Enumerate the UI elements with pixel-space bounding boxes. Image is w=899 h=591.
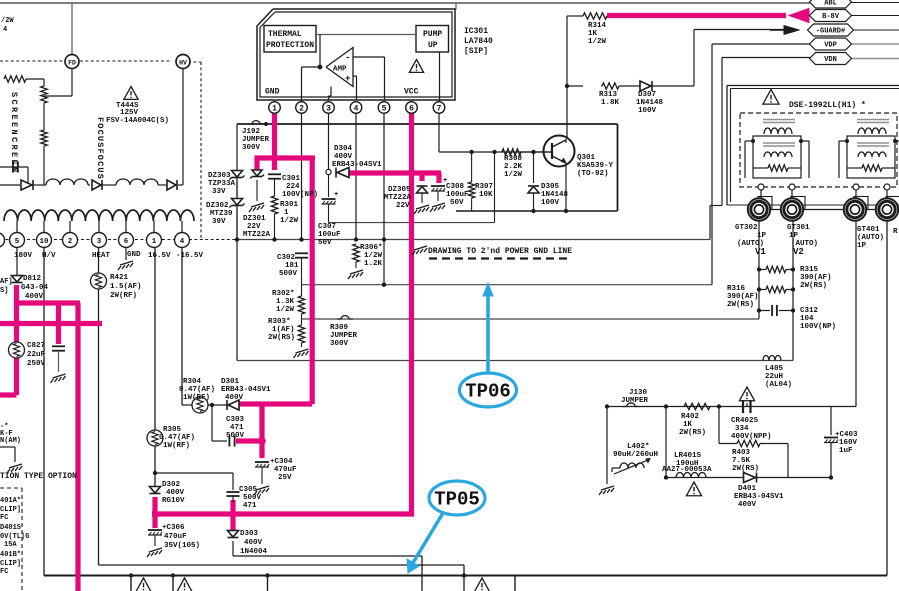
svg-text:+C306: +C306 [162, 524, 185, 532]
svg-text:15A: 15A [4, 541, 17, 549]
svg-text:C305: C305 [239, 486, 258, 494]
svg-text:0.47(AF): 0.47(AF) [159, 434, 195, 442]
svg-text:2W(RF): 2W(RF) [110, 292, 137, 300]
svg-text:1N4148: 1N4148 [636, 99, 664, 107]
svg-text:R: R [893, 228, 898, 236]
svg-text:V2: V2 [793, 247, 804, 257]
svg-text:V1: V1 [755, 247, 766, 257]
svg-text:4: 4 [3, 26, 7, 34]
svg-text:+C304: +C304 [270, 458, 293, 466]
svg-text:GND: GND [265, 88, 280, 97]
svg-text:470uF: 470uF [274, 466, 297, 474]
svg-text:D812: D812 [23, 275, 42, 283]
svg-text:IC301: IC301 [464, 27, 488, 36]
svg-text:1N4148: 1N4148 [541, 191, 569, 199]
svg-text:401A*: 401A* [0, 497, 21, 505]
svg-text:1P: 1P [789, 232, 799, 240]
svg-text:390(AF): 390(AF) [727, 293, 759, 301]
svg-text:CLIP]: CLIP] [0, 506, 21, 514]
svg-text:PROTECTION: PROTECTION [266, 41, 314, 50]
svg-text:5: 5 [382, 105, 387, 114]
svg-text:0V(TL|G: 0V(TL|G [0, 533, 29, 541]
svg-text:MTZ22A: MTZ22A [243, 231, 271, 239]
svg-text:2W(RS): 2W(RS) [732, 465, 759, 473]
svg-text:JUMPER: JUMPER [621, 397, 649, 405]
svg-text:R308: R308 [504, 155, 523, 163]
svg-text:-GUARD#: -GUARD# [816, 28, 845, 36]
svg-text:22V: 22V [247, 223, 261, 231]
svg-text:1/2W: 1/2W [276, 306, 295, 314]
svg-text:90uH/260uH: 90uH/260uH [613, 451, 658, 459]
svg-text:1(AF): 1(AF) [272, 326, 295, 334]
svg-text:2W(RS): 2W(RS) [268, 334, 295, 342]
svg-text:10: 10 [39, 238, 49, 246]
svg-text:100uF: 100uF [446, 191, 469, 199]
svg-text:1P: 1P [857, 242, 867, 250]
svg-text:1.8K: 1.8K [601, 99, 620, 107]
svg-text:1K: 1K [588, 30, 598, 38]
svg-text:R304: R304 [183, 378, 202, 386]
svg-text:1W(RF): 1W(RF) [163, 442, 190, 450]
svg-text:50V: 50V [450, 199, 464, 207]
svg-text:MTZ22A: MTZ22A [384, 194, 412, 202]
svg-text:R314: R314 [588, 22, 607, 30]
svg-text:22V: 22V [396, 202, 410, 210]
svg-text:J192: J192 [242, 128, 261, 136]
svg-text:22uF: 22uF [27, 351, 46, 359]
svg-text:TP05: TP05 [434, 489, 480, 511]
svg-text:4: 4 [180, 238, 185, 246]
svg-text:1/2W: 1/2W [588, 38, 607, 46]
svg-text:FD: FD [68, 60, 76, 67]
svg-text:GT302: GT302 [735, 224, 758, 232]
svg-text:G43-04: G43-04 [21, 284, 49, 292]
svg-text:L402*: L402* [627, 443, 650, 451]
svg-text:400V: 400V [166, 489, 185, 497]
svg-text:2W(RS): 2W(RS) [727, 301, 754, 309]
svg-text:R307: R307 [475, 183, 493, 191]
svg-text:471: 471 [243, 502, 257, 510]
svg-text:CR402S: CR402S [731, 417, 759, 425]
svg-text:R316: R316 [727, 285, 746, 293]
svg-text:GND: GND [127, 251, 141, 259]
svg-text:FC: FC [0, 568, 8, 576]
svg-text:R302*: R302* [272, 290, 295, 298]
svg-text:3: 3 [97, 238, 102, 246]
svg-text:1W(RF): 1W(RF) [183, 394, 210, 402]
svg-text:4: 4 [354, 105, 359, 114]
svg-text:R301: R301 [280, 201, 299, 209]
svg-text:CLIP]: CLIP] [0, 560, 21, 568]
svg-text:+: + [334, 191, 338, 199]
svg-text:[SIP]: [SIP] [464, 47, 488, 56]
svg-text:KSA539-Y: KSA539-Y [577, 162, 614, 170]
svg-text:D303: D303 [240, 530, 259, 538]
svg-text:TION TYPE OPTION: TION TYPE OPTION [0, 472, 77, 481]
svg-text:300V: 300V [330, 340, 349, 348]
svg-text:DZ303: DZ303 [208, 172, 231, 180]
svg-text:2.2K: 2.2K [504, 163, 523, 171]
svg-text:1.2K: 1.2K [364, 260, 383, 268]
svg-text:C301: C301 [282, 175, 301, 183]
svg-text:1K: 1K [683, 421, 693, 429]
svg-text:400V: 400V [244, 539, 263, 547]
svg-text:VDP: VDP [824, 42, 837, 50]
svg-text:VDN: VDN [824, 56, 837, 64]
svg-text:DZ302: DZ302 [206, 202, 229, 210]
svg-text:LR401S: LR401S [674, 452, 702, 460]
svg-text:R303*: R303* [268, 318, 291, 326]
svg-text:DZ305: DZ305 [388, 186, 411, 194]
svg-text:2W(RS): 2W(RS) [679, 429, 706, 437]
svg-text:D302: D302 [162, 481, 181, 489]
svg-text:160V: 160V [839, 439, 858, 447]
svg-text:401B*: 401B* [0, 551, 21, 559]
svg-text:D301: D301 [221, 378, 240, 386]
svg-text:R402: R402 [681, 413, 700, 421]
svg-text:471: 471 [230, 424, 244, 432]
svg-text:22uH: 22uH [765, 373, 783, 381]
svg-text:D401S: D401S [0, 524, 21, 532]
svg-text:2W(RS): 2W(RS) [800, 282, 827, 290]
svg-text:500V: 500V [226, 432, 245, 440]
svg-text:UP: UP [428, 41, 438, 50]
svg-text:/2W: /2W [1, 17, 14, 25]
svg-text:-16.5V: -16.5V [176, 252, 204, 260]
svg-text:2: 2 [68, 238, 73, 246]
svg-text:400V(NPP): 400V(NPP) [731, 433, 772, 441]
svg-text:1: 1 [272, 105, 277, 114]
svg-text:1: 1 [284, 209, 289, 217]
svg-text:400V: 400V [25, 293, 44, 301]
svg-text:L405: L405 [765, 365, 784, 373]
svg-text:AA27-00053A: AA27-00053A [662, 466, 712, 474]
svg-text:1/2W: 1/2W [364, 252, 383, 260]
svg-text:FSV-14A004C(S): FSV-14A004C(S) [106, 117, 169, 125]
svg-text:THERMAL: THERMAL [268, 30, 302, 39]
svg-text:6: 6 [409, 105, 414, 114]
svg-text:16.5V: 16.5V [148, 252, 171, 260]
svg-text:R305: R305 [163, 426, 182, 434]
svg-text:TP06: TP06 [465, 381, 511, 403]
svg-text:500V: 500V [243, 494, 262, 502]
svg-text:7.5K: 7.5K [732, 457, 751, 465]
svg-text:100V: 100V [541, 199, 560, 207]
svg-text:JUMPER: JUMPER [330, 332, 358, 340]
svg-text:ERB43-04SV1: ERB43-04SV1 [734, 493, 784, 501]
svg-text:7: 7 [437, 105, 442, 114]
svg-text:-: - [345, 53, 350, 63]
svg-text:SCREENCREEN: SCREENCREEN [9, 92, 19, 175]
svg-text:3: 3 [326, 105, 331, 114]
svg-text:35V(105): 35V(105) [164, 542, 200, 550]
svg-text:100V: 100V [638, 107, 657, 115]
svg-text:5: 5 [15, 238, 20, 246]
svg-text:C308: C308 [446, 183, 465, 191]
svg-text:181: 181 [285, 262, 299, 270]
svg-text:100V(NP): 100V(NP) [800, 323, 836, 331]
svg-text:J130: J130 [629, 389, 648, 397]
svg-text:PUMP: PUMP [423, 30, 442, 39]
svg-text:+: + [345, 74, 350, 84]
svg-text:25V: 25V [278, 474, 292, 482]
svg-text:ERB43-04SV1: ERB43-04SV1 [221, 386, 271, 394]
svg-text:100V(NP): 100V(NP) [282, 191, 318, 199]
svg-text:33V: 33V [212, 188, 226, 196]
svg-text:224: 224 [286, 183, 300, 191]
svg-text:R421: R421 [110, 274, 129, 282]
svg-text:104: 104 [800, 315, 814, 323]
svg-text:125V: 125V [120, 109, 139, 117]
svg-text:50V: 50V [318, 239, 332, 247]
svg-text:0.47(AF): 0.47(AF) [179, 386, 215, 394]
svg-text:R315: R315 [800, 266, 819, 274]
svg-text:S]: S] [0, 287, 8, 295]
svg-text:HEAT: HEAT [92, 252, 111, 260]
svg-text:1/2W: 1/2W [280, 217, 299, 225]
svg-text:DSE-1992LL(H1) *: DSE-1992LL(H1) * [789, 101, 866, 110]
svg-text:470uF: 470uF [164, 533, 187, 541]
svg-text:R306*: R306* [360, 244, 383, 252]
svg-text:100uF: 100uF [318, 231, 341, 239]
svg-text:500V: 500V [279, 270, 298, 278]
svg-text:H/V: H/V [42, 252, 56, 260]
svg-text:C302: C302 [277, 254, 296, 262]
svg-text:400V: 400V [334, 153, 353, 161]
svg-text:+C403: +C403 [835, 431, 858, 439]
svg-text:1/2W: 1/2W [504, 171, 523, 179]
svg-text:(AUTO): (AUTO) [857, 234, 884, 242]
svg-text:C303: C303 [226, 416, 245, 424]
svg-text:D307: D307 [638, 91, 656, 99]
svg-text:39V: 39V [212, 218, 226, 226]
svg-text:1uF: 1uF [839, 447, 853, 455]
svg-text:390(AF): 390(AF) [800, 274, 832, 282]
svg-text:AF]: AF] [0, 278, 13, 286]
svg-text:1N4004: 1N4004 [240, 548, 268, 556]
svg-text:C312: C312 [800, 307, 819, 315]
svg-text:R313: R313 [599, 91, 618, 99]
svg-text:1.5(AF): 1.5(AF) [110, 283, 142, 291]
svg-text:B-8V: B-8V [822, 13, 840, 21]
svg-text:FC: FC [0, 514, 8, 522]
svg-text:HV: HV [179, 60, 187, 67]
svg-text:R403: R403 [732, 449, 751, 457]
svg-text:C307: C307 [318, 223, 336, 231]
svg-text:250V: 250V [27, 360, 46, 368]
svg-text:1.3K: 1.3K [276, 298, 295, 306]
svg-text:400V: 400V [738, 501, 757, 509]
svg-text:LA7840: LA7840 [464, 37, 493, 46]
svg-text:D304: D304 [334, 145, 353, 153]
svg-text:C827: C827 [27, 342, 45, 350]
svg-text:RG10V: RG10V [162, 497, 185, 505]
svg-text:TZP33A: TZP33A [208, 180, 236, 188]
svg-text:300V: 300V [242, 144, 261, 152]
svg-text:ERB43-04SV1: ERB43-04SV1 [332, 161, 382, 169]
svg-text:ABL: ABL [824, 0, 837, 8]
svg-text:GT401: GT401 [857, 226, 880, 234]
svg-text:Q301: Q301 [577, 154, 596, 162]
svg-text:GT301: GT301 [787, 224, 810, 232]
svg-text:DZ301: DZ301 [243, 215, 266, 223]
svg-text:334: 334 [735, 425, 749, 433]
svg-text:R309: R309 [330, 324, 349, 332]
svg-text:(AL04): (AL04) [765, 381, 792, 389]
svg-text:MTZ39: MTZ39 [210, 210, 233, 218]
svg-text:6: 6 [124, 238, 129, 246]
svg-text:AMP: AMP [333, 66, 347, 74]
svg-text:N(AM): N(AM) [0, 437, 21, 445]
svg-text:1: 1 [152, 238, 157, 246]
svg-text:JUMPER: JUMPER [242, 136, 270, 144]
svg-text:FOCUSFOCUS: FOCUSFOCUS [95, 117, 105, 180]
svg-text:400V: 400V [225, 394, 244, 402]
svg-text:2: 2 [299, 105, 304, 114]
svg-text:VCC: VCC [404, 88, 419, 97]
svg-text:D401: D401 [738, 485, 757, 493]
svg-text:DRAWING TO 2'nd POWER GND LINE: DRAWING TO 2'nd POWER GND LINE [428, 247, 572, 256]
svg-text:10K: 10K [479, 191, 493, 199]
svg-text:D305: D305 [541, 183, 560, 191]
svg-text:(TO-92): (TO-92) [577, 170, 609, 178]
